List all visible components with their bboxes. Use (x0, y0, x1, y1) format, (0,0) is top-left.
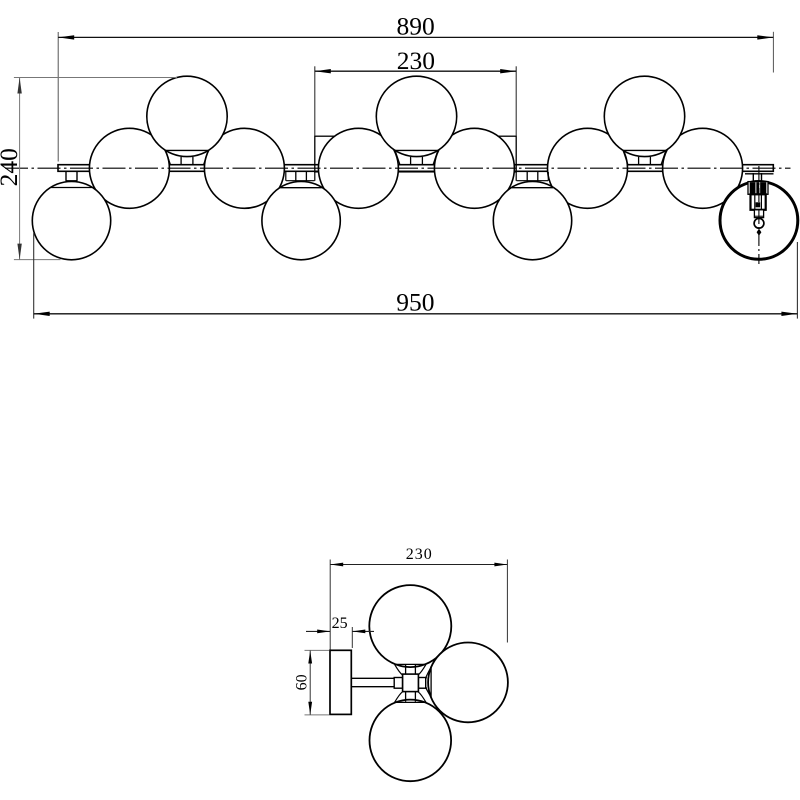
dimension 230 (top) (315, 46, 516, 136)
mid sphere G3 (318, 128, 398, 208)
dimension 25 (detail) (306, 615, 374, 648)
top sphere T3 (604, 76, 684, 164)
svg-text:230: 230 (397, 46, 435, 75)
detail top sphere fitter (394, 664, 426, 675)
detail bottom sphere (370, 700, 452, 782)
mid sphere G1 (89, 128, 169, 208)
svg-text:25: 25 (332, 615, 348, 632)
dimension 950 (34, 233, 798, 319)
dimension 890 (58, 12, 773, 162)
detail right sphere fitter (418, 666, 431, 698)
mounting bar (58, 165, 773, 172)
detail right sphere (428, 643, 508, 723)
top sphere T2 (376, 76, 456, 164)
top sphere T1 (147, 76, 227, 164)
mid sphere G5 (548, 128, 628, 208)
dimension 60 (detail) (294, 650, 329, 715)
low sphere B2 (262, 172, 340, 260)
vertical centerline of socket (758, 166, 760, 264)
svg-text:950: 950 (396, 287, 434, 316)
svg-text:60: 60 (294, 674, 311, 690)
dimension 240 (left, vertical) (0, 78, 177, 260)
lamp socket assembly (745, 173, 774, 236)
detail top sphere (369, 585, 451, 667)
svg-text:240: 240 (0, 148, 23, 186)
mid sphere G6 (663, 128, 743, 208)
horizontal centerline (5, 167, 791, 169)
canopy box (middle module backplate) (315, 136, 516, 172)
mid sphere G2 (204, 128, 284, 208)
svg-text:890: 890 (396, 12, 434, 41)
thick sphere B4 (glass shown) (720, 182, 798, 260)
dimension 230 (detail) (330, 546, 507, 650)
low sphere B1 (32, 172, 110, 260)
detail bottom sphere fitter (394, 692, 426, 703)
wall plate (330, 650, 351, 714)
hub block (403, 674, 419, 692)
svg-text:230: 230 (406, 546, 433, 563)
left connector (394, 678, 402, 689)
arm (351, 678, 394, 686)
mid sphere G4 (434, 128, 514, 208)
low sphere B3 (493, 172, 571, 260)
right connector (418, 678, 425, 689)
